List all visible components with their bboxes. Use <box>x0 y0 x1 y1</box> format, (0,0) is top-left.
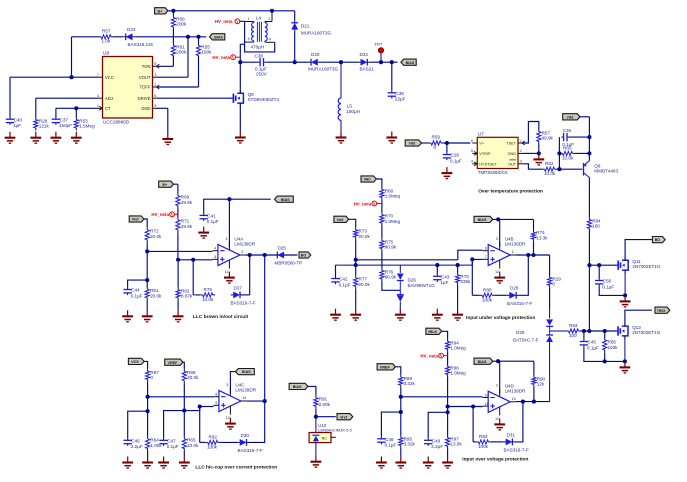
junction - node U4C <box>146 395 150 399</box>
svg-text:Vref: Vref <box>132 218 140 222</box>
svg-text:BAS316-7-F: BAS316-7-F <box>504 448 529 453</box>
wire B+ rail <box>168 10 295 12</box>
wire upper row to pin6 <box>458 250 483 260</box>
resistor R57b <box>537 129 554 144</box>
wire HV jog <box>240 43 244 45</box>
svg-text:DRIVE: DRIVE <box>138 96 151 101</box>
net HV_neta (U4A) <box>151 212 174 217</box>
ground C44 <box>122 310 133 322</box>
inductor L5 150uH <box>338 62 360 131</box>
wire VREF to R88 <box>183 362 184 368</box>
junction CT/R53 <box>74 106 78 110</box>
diode D22 <box>358 52 374 71</box>
wire R68 to HV <box>381 200 383 204</box>
svg-text:TOFF: TOFF <box>140 85 151 90</box>
junction rail/TP7 <box>379 60 383 64</box>
wire + jog U4C <box>184 407 199 411</box>
ground C43 <box>432 309 443 321</box>
wire R74 to out <box>533 242 535 255</box>
wire riser to R57 <box>71 37 73 77</box>
transistor Q9 <box>230 90 279 106</box>
resistor R97 <box>446 435 463 449</box>
resistor R62 <box>542 161 557 176</box>
svg-text:2N7002ET1G: 2N7002ET1G <box>632 264 661 269</box>
svg-text:HV_neta: HV_neta <box>151 212 169 217</box>
junction Q11 gate <box>587 263 591 267</box>
svg-text:LM139DR: LM139DR <box>505 242 526 247</box>
ground C47 <box>158 457 169 469</box>
resistor R87 <box>146 369 160 382</box>
svg-text:V+: V+ <box>479 142 485 146</box>
ground U4D V- <box>494 418 505 430</box>
wire lower row to pin7 <box>472 259 482 265</box>
junction V+ U4D <box>496 359 500 363</box>
port B+ (top) <box>155 8 168 14</box>
svg-text:10.0k: 10.0k <box>544 171 556 176</box>
port Vref (U4A) <box>129 216 144 222</box>
svg-text:C41: C41 <box>207 214 216 219</box>
wire VREF to R89 <box>395 367 400 375</box>
resistor R94 <box>446 339 467 352</box>
junction out/fb <box>248 253 252 257</box>
svg-text:2.2µF: 2.2µF <box>131 444 143 449</box>
junction out/fb U4B <box>526 253 530 257</box>
svg-text:Input under voltage protection: Input under voltage protection <box>466 315 535 321</box>
wire Vdd to R59 <box>422 142 429 144</box>
wire D21 to rail <box>294 32 296 62</box>
svg-text:1: 1 <box>512 250 514 254</box>
port Vref (U10) <box>337 414 353 420</box>
svg-text:VCC: VCC <box>105 75 114 80</box>
resistor R78 <box>456 272 472 285</box>
wire fb bottom <box>242 294 250 296</box>
wire - input row <box>147 250 212 252</box>
svg-text:150k: 150k <box>201 50 212 55</box>
wire to Q11 gate <box>589 264 615 266</box>
resistor R53 <box>74 117 95 131</box>
transistor Q12 <box>615 323 661 339</box>
capacitor C50 <box>595 278 614 289</box>
wire R82 gnd stub <box>177 300 179 310</box>
svg-text:D28: D28 <box>510 286 519 291</box>
wire R85 bottom <box>604 353 606 362</box>
svg-text:3: 3 <box>496 384 498 388</box>
junction R60/rail <box>587 151 591 155</box>
svg-text:R83: R83 <box>569 323 578 328</box>
capacitor C47 <box>159 438 178 449</box>
wire R81 gnd stub <box>146 300 148 310</box>
port VAC <box>361 176 376 182</box>
svg-text:335k: 335k <box>460 279 471 284</box>
ground C41 <box>198 227 209 239</box>
wire D24 to BIAS <box>135 36 206 38</box>
svg-text:1: 1 <box>520 139 522 143</box>
svg-text:14: 14 <box>242 396 246 400</box>
capacitor C40 <box>6 117 23 128</box>
ground Q9 <box>235 132 246 144</box>
diode D21 <box>291 20 331 35</box>
svg-text:D24: D24 <box>127 27 136 32</box>
wire R73 down <box>355 240 357 260</box>
svg-text:100k: 100k <box>608 345 619 350</box>
svg-text:BIAS: BIAS <box>214 35 223 39</box>
svg-text:TP7: TP7 <box>374 42 383 47</box>
wire C42 branch <box>335 265 337 276</box>
transistor Q8 MMBT4403 <box>584 161 619 178</box>
svg-text:L4: L4 <box>256 15 262 20</box>
capacitor C48 <box>377 437 396 448</box>
svg-text:20.0k: 20.0k <box>150 234 162 239</box>
svg-text:3.32k: 3.32k <box>404 381 416 386</box>
svg-text:MURA160T3G: MURA160T3G <box>301 31 332 36</box>
svg-text:BIAS: BIAS <box>478 360 487 364</box>
svg-text:0: 0 <box>434 145 437 150</box>
svg-text:4: 4 <box>214 247 216 251</box>
wire R57b to GND node <box>538 144 540 153</box>
resistor R96 <box>446 364 467 377</box>
resistor R84 <box>587 217 601 231</box>
svg-text:13.3k: 13.3k <box>536 235 548 240</box>
junction bottom row <box>603 359 607 363</box>
svg-text:R92: R92 <box>209 435 218 440</box>
svg-text:20.0k: 20.0k <box>187 443 199 448</box>
svg-text:CT: CT <box>105 106 111 111</box>
svg-text:VTRIP: VTRIP <box>479 152 491 156</box>
svg-text:R59: R59 <box>432 135 441 140</box>
junction + row/fb <box>191 258 195 262</box>
svg-text:B+: B+ <box>162 183 167 187</box>
svg-text:9: 9 <box>215 401 217 405</box>
diode D31 <box>503 432 529 452</box>
ground R53 <box>71 132 82 144</box>
svg-text:VOUT: VOUT <box>139 75 151 80</box>
junction R97 node <box>446 410 450 414</box>
wire BIAS to V+ U4D <box>493 360 498 362</box>
resistor R74 <box>531 230 548 242</box>
port BIAS (rail) <box>401 59 416 65</box>
wire R29 stub <box>549 255 551 275</box>
wire + row U4C <box>200 406 214 408</box>
wire R83 to gate row <box>581 330 615 332</box>
wire VCS to R87 <box>144 361 147 368</box>
ground C46 <box>122 457 133 469</box>
resistor R88 <box>182 369 199 384</box>
port VREF (U4C) <box>165 359 183 365</box>
ground R95 <box>395 457 406 469</box>
wire L4 routing loop <box>245 22 275 52</box>
junction C43 <box>435 263 439 267</box>
svg-text:U8: U8 <box>103 51 109 57</box>
wire R29 to D29 <box>549 288 551 309</box>
svg-text:121k: 121k <box>39 124 50 129</box>
svg-text:GND: GND <box>141 106 150 111</box>
svg-text:90.9k: 90.9k <box>385 275 397 280</box>
ground R65 <box>179 457 190 469</box>
svg-text:UCC28880D: UCC28880D <box>103 120 130 125</box>
wire + input row <box>178 259 212 261</box>
wire R71 to + row <box>177 232 179 259</box>
svg-text:LM139DR: LM139DR <box>235 388 256 393</box>
diode D29 BAT54C-7-F <box>513 309 553 402</box>
wire C47 branch <box>164 411 185 439</box>
resistor R64 <box>146 436 163 451</box>
svg-text:1.0Meg: 1.0Meg <box>385 219 401 224</box>
wire GND drop <box>167 108 169 133</box>
svg-text:2: 2 <box>269 17 271 21</box>
op-amp U7 TMP302 temperature switch <box>471 131 525 175</box>
wire rail to D21 <box>294 11 296 21</box>
diode D26 BAV99WT1G <box>397 265 435 309</box>
svg-text:12: 12 <box>226 416 230 420</box>
resistor R73 <box>354 227 371 239</box>
svg-text:LLC hic-cup over current prote: LLC hic-cup over current protection <box>195 465 277 471</box>
wire C50 riser <box>598 265 600 278</box>
svg-text:3: 3 <box>248 37 250 41</box>
svg-text:HV_neta: HV_neta <box>420 353 438 358</box>
junction R78 <box>456 263 460 267</box>
wire TSET loop <box>523 122 539 144</box>
svg-text:1.0Meg: 1.0Meg <box>450 346 466 351</box>
wire R72 to - row <box>146 242 148 251</box>
junction out/R90 <box>532 400 536 404</box>
svg-text:3: 3 <box>496 237 498 241</box>
wire fb left U4B <box>472 294 479 296</box>
junction C46/R64 <box>146 409 150 413</box>
wire C49 branch <box>428 412 447 438</box>
svg-text:250V: 250V <box>256 72 268 77</box>
svg-text:20.0k: 20.0k <box>150 293 162 298</box>
svg-text:R57: R57 <box>102 28 111 33</box>
wire R91 down <box>315 409 317 417</box>
svg-text:HV_neta: HV_neta <box>354 201 372 206</box>
wire R55 top <box>198 37 200 43</box>
red stub HV2 <box>236 56 241 58</box>
wire R70 to R75 <box>381 226 383 239</box>
diode D28 <box>507 286 533 306</box>
svg-text:1: 1 <box>97 104 99 108</box>
svg-text:5: 5 <box>214 255 216 259</box>
svg-text:3: 3 <box>520 160 522 164</box>
svg-text:13.0k: 13.0k <box>450 442 462 447</box>
svg-text:22µF: 22µF <box>395 97 406 102</box>
junction C36 left <box>557 151 561 155</box>
wire C43 stub <box>436 265 438 274</box>
svg-text:3: 3 <box>155 73 157 77</box>
wire fb mid U4B <box>495 294 507 296</box>
svg-text:BO: BO <box>301 254 307 258</box>
wire output chain <box>264 255 266 401</box>
svg-text:0.1µF: 0.1µF <box>167 444 179 449</box>
junction out/fb U4D <box>521 400 525 404</box>
capacitor C36 <box>561 133 569 141</box>
svg-text:TRIG: TRIG <box>657 309 666 313</box>
svg-text:0.1µF: 0.1µF <box>450 158 462 163</box>
capacitor C46 <box>124 438 143 449</box>
resistor R76 <box>380 268 397 282</box>
svg-text:Vref: Vref <box>340 415 348 419</box>
resistor R91 <box>314 395 331 409</box>
wire Q11 drain to port <box>625 240 652 259</box>
wire R84 down <box>588 231 590 265</box>
wire C41 riser <box>204 199 271 213</box>
junction - node <box>145 249 149 253</box>
resistor R95 <box>399 435 416 448</box>
op-amp U4A LM139DR <box>212 237 255 274</box>
svg-text:7: 7 <box>485 255 487 259</box>
svg-text:B+: B+ <box>157 9 162 13</box>
svg-text:BAS316-7-F: BAS316-7-F <box>238 448 263 453</box>
wire Vdd rail <box>580 116 589 118</box>
junction - node U4D <box>399 395 403 399</box>
wire fb left U4C <box>200 441 206 443</box>
junction rail/D21 <box>293 60 297 64</box>
svg-text:D29: D29 <box>516 330 525 335</box>
svg-text:BAS316,115: BAS316,115 <box>128 42 154 47</box>
wire fb mid U4C <box>220 441 237 443</box>
port TRIG (Q12) <box>655 307 670 313</box>
svg-text:HYSTSET: HYSTSET <box>479 162 497 166</box>
wire - node drop U4D <box>400 397 402 412</box>
junction + node U4D <box>446 404 450 408</box>
svg-text:C43: C43 <box>441 275 450 280</box>
svg-text:12: 12 <box>495 270 499 274</box>
svg-text:10: 10 <box>485 393 489 397</box>
junction VCC/R57 <box>69 75 73 79</box>
wire R90 stub <box>533 361 535 375</box>
svg-text:20.0k: 20.0k <box>187 375 199 380</box>
svg-text:150pF: 150pF <box>59 123 72 128</box>
wire R97 stub <box>447 412 449 435</box>
wire BIAS to R74 <box>498 218 533 220</box>
svg-text:100: 100 <box>592 224 600 229</box>
wire - row U4D <box>401 396 483 398</box>
wire U4D out <box>516 401 550 403</box>
wire R77 stub <box>355 265 357 275</box>
capacitor C49 <box>424 438 443 449</box>
svg-text:0: 0 <box>552 282 555 287</box>
wire R77 gnd <box>355 289 357 309</box>
wire to R57 <box>72 36 99 38</box>
wire down to R83 row <box>588 265 590 331</box>
svg-text:0.1µF: 0.1µF <box>207 219 219 224</box>
svg-text:C42: C42 <box>339 277 348 282</box>
resistor R60 <box>560 146 575 161</box>
svg-text:U7: U7 <box>478 131 484 137</box>
svg-text:10.0k: 10.0k <box>202 297 214 302</box>
wire Vref to R72 <box>144 219 147 227</box>
svg-text:R93: R93 <box>479 434 488 439</box>
wire fb up U4D <box>515 402 523 442</box>
wire TON run <box>157 65 174 67</box>
ground Q12 <box>620 361 631 373</box>
wire V+ jog U4B <box>498 218 500 220</box>
svg-text:3: 3 <box>225 237 227 241</box>
wire C46 branch <box>128 411 148 438</box>
svg-text:3.32k: 3.32k <box>404 442 416 447</box>
svg-text:C39: C39 <box>395 91 404 96</box>
capacitor C39 <box>388 91 406 102</box>
wire R69 to HV <box>177 208 179 214</box>
svg-text:VCS: VCS <box>131 360 139 364</box>
wire R55 riser low <box>198 56 200 88</box>
svg-text:6: 6 <box>485 247 487 251</box>
wire - node drop U4C <box>147 397 149 411</box>
svg-text:200k: 200k <box>176 22 187 27</box>
svg-text:100k: 100k <box>207 445 218 450</box>
svg-text:49.9k: 49.9k <box>181 200 193 205</box>
wire HV to R96 <box>447 356 449 364</box>
wire R58 to B+ rail <box>172 11 174 15</box>
wire R95 stub <box>400 412 402 435</box>
wire R61 to TON <box>172 56 174 67</box>
junction C50 tap <box>597 263 601 267</box>
wire V+ drop <box>228 199 230 247</box>
wire fb riser <box>192 260 194 295</box>
wire HV to R71 <box>177 214 179 217</box>
svg-text:0.1µF: 0.1µF <box>587 345 599 350</box>
wire R53 stub <box>75 108 77 117</box>
red stub HV3 <box>174 213 178 215</box>
ground L5 <box>336 132 347 144</box>
wire GND pin <box>157 107 168 109</box>
resistor R77 <box>354 275 371 289</box>
wire R74 stub <box>533 219 535 229</box>
svg-text:1.5Meg: 1.5Meg <box>79 124 95 129</box>
capacitor C28 <box>443 152 462 163</box>
svg-text:LM4040CIM3X-5.0: LM4040CIM3X-5.0 <box>318 427 352 432</box>
port BO (Q11) <box>652 237 665 243</box>
wire U4A out <box>245 254 297 256</box>
svg-text:0.1µF: 0.1µF <box>385 443 397 448</box>
wire fb drop <box>249 255 251 295</box>
svg-text:0: 0 <box>150 375 153 380</box>
svg-text:BO: BO <box>655 238 661 242</box>
wire fb mid U4D <box>491 441 503 443</box>
svg-text:0.1µF: 0.1µF <box>602 284 614 289</box>
port BIAS (top) <box>210 34 225 40</box>
svg-text:D27: D27 <box>234 285 243 290</box>
svg-text:BIAS: BIAS <box>478 218 487 222</box>
wire R88 down <box>183 383 185 410</box>
port BIAS (U4B) <box>474 216 493 222</box>
ground C37 <box>51 132 62 144</box>
svg-text:6: 6 <box>155 94 157 98</box>
svg-text:D31: D31 <box>507 432 516 437</box>
svg-text:20.0k: 20.0k <box>359 234 371 239</box>
wire rail seg3 <box>295 61 309 63</box>
wire - node drop <box>146 251 148 280</box>
wire VBLK to R94 <box>442 331 448 339</box>
junction rail/C39 <box>390 60 394 64</box>
svg-text:49.9k: 49.9k <box>181 224 193 229</box>
ground C42 <box>330 309 341 321</box>
ground R82 <box>173 310 184 322</box>
net HV_neta (U4D) <box>420 353 443 358</box>
svg-text:C40: C40 <box>14 117 23 122</box>
svg-text:MURA160T3G: MURA160T3G <box>308 66 339 71</box>
shunt reference U10 LM4040 <box>309 417 353 456</box>
svg-text:100k: 100k <box>478 444 489 449</box>
svg-text:0.1µF: 0.1µF <box>131 293 143 298</box>
port VCS <box>128 358 144 364</box>
wire R69 top <box>177 184 179 193</box>
resistor R59 <box>429 135 444 150</box>
svg-text:BIAS: BIAS <box>281 198 290 202</box>
resistor R28 <box>34 117 50 131</box>
svg-text:2.2µF: 2.2µF <box>431 444 443 449</box>
svg-text:BIAS: BIAS <box>406 61 415 65</box>
ground U4B V- <box>494 272 505 284</box>
